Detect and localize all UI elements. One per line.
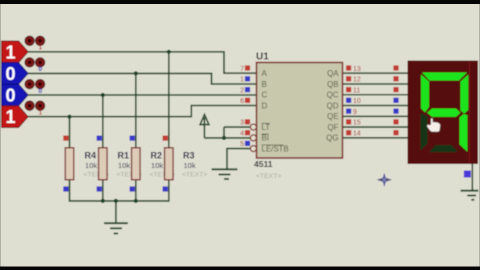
svg-text:1: 1 <box>38 110 42 117</box>
svg-text:QG: QG <box>326 134 338 143</box>
wire P4 net (state 1) <box>28 106 257 117</box>
pin BI name <box>262 134 269 143</box>
pin 14 logic square (high) <box>346 130 351 135</box>
wire P3 net (state 0) <box>28 94 257 96</box>
power arrow (BI/LT pull-up) <box>200 115 209 125</box>
wire R4 tap <box>69 117 71 148</box>
segment d (unlit) <box>429 145 458 152</box>
toggle buttons P4 <box>25 101 45 117</box>
7-segment display body <box>408 61 479 165</box>
top letterbox bar <box>0 0 480 4</box>
pin 1 logic square (low) <box>245 76 250 81</box>
svg-text:1: 1 <box>38 45 42 52</box>
toggle buttons P2 <box>25 58 45 73</box>
svg-text:0: 0 <box>38 66 42 73</box>
svg-text:QF: QF <box>328 123 339 132</box>
pin 4 logic square (high) <box>245 130 250 135</box>
wire QD to display <box>343 105 408 107</box>
op-amp U1 body (4511 BCD decoder) <box>254 52 343 180</box>
svg-text:C: C <box>262 91 268 100</box>
resistor R4 bottom logic square (low) <box>63 186 68 191</box>
svg-text:9: 9 <box>353 109 357 116</box>
svg-text:LT: LT <box>262 123 271 132</box>
svg-text:U1: U1 <box>256 52 269 63</box>
segment f (lit) <box>421 75 429 113</box>
svg-text:4: 4 <box>240 131 244 138</box>
wire resistor bottoms to rail <box>70 180 169 201</box>
pin 10 logic square (low) <box>346 98 351 103</box>
wire ground stem left <box>115 201 117 223</box>
pin 6 logic square (high) <box>245 98 250 103</box>
logicstate P1 value 1 <box>2 41 29 63</box>
wire LT to riser <box>224 126 250 128</box>
wire QB to display <box>343 83 408 85</box>
wire QE to display <box>343 115 408 117</box>
resistor R1 <box>99 148 142 180</box>
pin 12 logic square (high) <box>346 76 351 81</box>
resistor R1 top logic square (low) <box>97 136 102 141</box>
pin LT name <box>262 123 271 132</box>
resistor R3 bottom logic square (low) <box>163 186 168 191</box>
ground (display common) <box>461 191 479 200</box>
pin LE/STB name <box>262 144 289 153</box>
logicstate P3 value 0 <box>2 84 29 106</box>
resistor R2 <box>132 148 175 180</box>
resistor R4 top logic square (high) <box>63 136 68 141</box>
toggle buttons P3 <box>25 79 45 95</box>
wire R1 tap <box>102 95 104 148</box>
bottom letterbox bar <box>0 267 480 270</box>
pin 11 logic square (high) <box>346 87 351 92</box>
svg-text:0: 0 <box>38 88 42 95</box>
wire QA to display <box>343 72 408 74</box>
svg-text:LE/STB: LE/STB <box>262 144 289 153</box>
svg-text:BI: BI <box>262 134 269 143</box>
wire LE/STB to ground <box>227 149 250 169</box>
svg-text:0: 0 <box>5 86 15 106</box>
display pin square (segment d) <box>393 98 398 103</box>
display pin square (segment g) <box>393 130 398 135</box>
logicstate P2 value 0 <box>2 63 29 85</box>
segment e (unlit) <box>421 113 428 151</box>
move/origin marker icon <box>377 173 392 187</box>
node junction dots <box>67 50 226 203</box>
svg-text:3: 3 <box>240 120 244 127</box>
display pin square (segment f) <box>393 119 398 124</box>
segment a (lit) <box>422 73 467 81</box>
svg-text:A: A <box>262 69 268 78</box>
wire P1 net (state 1) <box>28 52 472 223</box>
display common pin square <box>464 171 471 178</box>
pin 5 logic square (low) <box>245 141 250 146</box>
inversion bubble LT <box>250 124 256 130</box>
display pin square (segment c) <box>393 87 398 92</box>
wire QC to display <box>343 94 408 96</box>
wire BI to power arrow <box>204 137 250 139</box>
display pin squares (segment a) <box>393 65 398 70</box>
svg-text:R3: R3 <box>183 151 195 161</box>
segment g (lit) <box>427 109 461 117</box>
pin 15 logic square (high) <box>346 119 351 124</box>
svg-text:QB: QB <box>327 80 338 89</box>
ground (under resistors) <box>104 223 128 233</box>
svg-text:10k: 10k <box>151 161 163 170</box>
resistor R3 top logic square (high) <box>163 136 168 141</box>
svg-text:B: B <box>262 80 267 89</box>
resistor R2 bottom logic square (low) <box>130 186 135 191</box>
pin 13 logic square (high) <box>346 65 351 70</box>
logicstate P4 value 1 <box>2 106 29 128</box>
svg-text:6: 6 <box>240 98 244 105</box>
svg-text:11: 11 <box>353 87 360 94</box>
svg-text:1: 1 <box>5 107 15 127</box>
svg-text:14: 14 <box>353 131 361 138</box>
svg-text:4511: 4511 <box>254 159 273 169</box>
svg-text:QE: QE <box>327 112 338 121</box>
segment c (lit) <box>460 114 468 152</box>
wire display common cathode <box>471 164 473 191</box>
segment b (lit) <box>460 75 468 114</box>
svg-text:<TEXT>: <TEXT> <box>182 171 207 178</box>
svg-text:QC: QC <box>327 91 339 100</box>
pin 2 logic square (low) <box>245 87 250 92</box>
svg-text:R4: R4 <box>85 151 97 161</box>
toggle buttons P1 <box>25 36 45 52</box>
resistor R2 top logic square (low) <box>130 136 135 141</box>
svg-text:5: 5 <box>240 141 244 148</box>
wire P2 net (state 0) <box>28 73 257 84</box>
svg-text:13: 13 <box>353 66 361 73</box>
svg-text:2: 2 <box>240 87 244 94</box>
svg-text:QD: QD <box>327 101 339 110</box>
svg-text:7: 7 <box>240 66 244 73</box>
svg-text:15: 15 <box>353 120 361 127</box>
ground (LE/STB) <box>212 169 238 179</box>
svg-text:10k: 10k <box>184 161 196 170</box>
pin 3 logic square (high) <box>245 119 250 124</box>
svg-text:R2: R2 <box>151 151 163 161</box>
mouse cursor <box>427 118 441 132</box>
svg-text:1: 1 <box>5 42 15 62</box>
pin 7 logic square (high) <box>245 65 250 70</box>
svg-text:10: 10 <box>353 98 361 105</box>
wire QF to display <box>343 126 408 128</box>
wire R2 tap <box>135 73 137 147</box>
wire riser LT-BI <box>223 127 225 138</box>
resistor R3 <box>165 148 208 180</box>
svg-text:1: 1 <box>240 77 244 84</box>
display pin square (segment e) <box>393 109 398 114</box>
pin 9 logic square (low) <box>346 109 351 114</box>
svg-text:0: 0 <box>5 64 15 84</box>
wire R3 tap <box>168 52 170 148</box>
wire QG to display <box>343 137 408 139</box>
resistor R1 bottom logic square (low) <box>97 186 102 191</box>
display pin square (segment b) <box>393 76 398 81</box>
inversion bubble LE/STB <box>250 146 256 152</box>
display inner shadow line <box>469 61 471 165</box>
resistor R4 <box>65 148 109 180</box>
svg-text:D: D <box>262 101 268 110</box>
svg-text:QA: QA <box>327 69 339 78</box>
svg-text:10k: 10k <box>85 161 97 170</box>
svg-text:12: 12 <box>353 77 361 84</box>
wire power arrow stem <box>203 118 205 138</box>
svg-text:R1: R1 <box>118 151 130 161</box>
svg-text:<TEXT>: <TEXT> <box>256 173 281 180</box>
inversion bubble BI <box>250 135 256 141</box>
svg-text:10k: 10k <box>118 161 130 170</box>
